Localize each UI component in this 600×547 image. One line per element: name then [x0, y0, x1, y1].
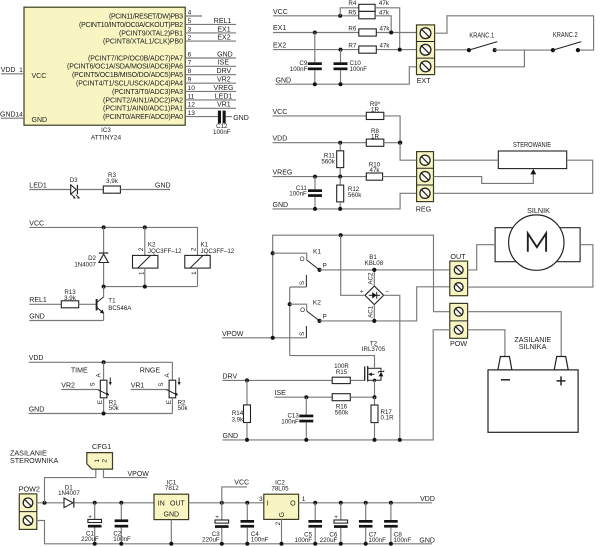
svg-text:VREG: VREG: [273, 170, 293, 177]
svg-text:220uF: 220uF: [81, 536, 99, 543]
svg-text:JQC3FF–12: JQC3FF–12: [201, 248, 235, 255]
svg-text:OUT: OUT: [450, 252, 466, 261]
junction DRV/R14: [245, 378, 249, 382]
wire switch midpoint to EXT pin3: [435, 50, 525, 67]
net REL1 wire: [29, 297, 61, 304]
relay contact K1: [273, 249, 327, 287]
ground GND bottom rail: [37, 521, 435, 545]
capacitor C6 220uF: [320, 503, 348, 544]
junction VCC/K2: [143, 225, 147, 229]
trimmer R2 50k: [158, 372, 188, 413]
resistor R16 560k: [332, 394, 350, 417]
junction AC2 / K1P wire: [372, 268, 376, 272]
junction R9/R8: [398, 141, 402, 145]
net GND (top right) wire: [276, 67, 417, 85]
capacitor C7 100nF: [359, 503, 386, 544]
pin 13 wire to C12: [185, 110, 218, 117]
svg-text:EXT: EXT: [417, 76, 432, 85]
svg-text:GND: GND: [217, 51, 233, 58]
svg-text:100nF: 100nF: [368, 537, 386, 544]
svg-text:JQC3FF–12: JQC3FF–12: [148, 248, 182, 255]
wire CFG1 pin2 to VPOW: [104, 469, 148, 478]
svg-text:P: P: [323, 314, 327, 321]
relay coil K1 JQC3FF-12: [185, 241, 235, 286]
potentiometer STEROWANIE: [498, 142, 566, 169]
junction C2: [119, 501, 123, 505]
capacitor C1 220uF: [81, 503, 101, 544]
pin 4 wire PB3: [185, 9, 202, 16]
net VCC (regulator row): [273, 109, 367, 116]
junction GND/C4: [245, 542, 249, 546]
svg-text:(PCINT0/AREF/ADC0)PA0: (PCINT0/AREF/ADC0)PA0: [103, 114, 183, 121]
wire EXT pin1 to top rail: [435, 16, 594, 50]
wire IC2 pin2 lead: [281, 519, 283, 543]
svg-text:9: 9: [188, 77, 192, 84]
wire R4 output to EX2 line: [375, 8, 400, 50]
svg-text:BC546A: BC546A: [108, 305, 132, 312]
capacitor C10 100nF: [334, 50, 368, 85]
svg-text:3: 3: [188, 26, 192, 33]
junction GND/C6: [339, 542, 343, 546]
transistor Q1 T1 BC546A: [97, 287, 133, 321]
svg-text:VCC: VCC: [273, 9, 288, 16]
svg-text:2: 2: [101, 458, 108, 462]
pin 8 wire node DRV: [185, 68, 236, 75]
svg-text:EX2: EX2: [217, 35, 230, 42]
pin 6 wire node GND: [185, 51, 236, 58]
junction top rail / bridge +: [339, 233, 343, 237]
svg-text:VDD: VDD: [1, 67, 16, 74]
pin 3 wire node EX1: [185, 26, 236, 33]
svg-text:IRL3705: IRL3705: [362, 346, 386, 353]
junction C3: [220, 501, 224, 505]
svg-text:VPOW: VPOW: [128, 471, 150, 478]
svg-text:GND: GND: [273, 202, 289, 209]
net VREG wire: [273, 170, 367, 177]
svg-text:STEROWNIKA: STEROWNIKA: [10, 456, 59, 465]
svg-text:(PCINT4/T1/SCL/USCK/ADC4)PA4: (PCINT4/T1/SCL/USCK/ADC4)PA4: [76, 81, 183, 88]
svg-text:100nF: 100nF: [350, 66, 368, 73]
wire relay return rail: [104, 286, 198, 288]
svg-text:KRANC.1: KRANC.1: [469, 33, 494, 40]
svg-text:KBL08: KBL08: [365, 260, 384, 267]
resistor R8 1R: [366, 128, 384, 146]
terminal block OUT: [450, 252, 468, 296]
svg-text:(PCINT5/OC1B/MISO/DO/ADC5)PA5: (PCINT5/OC1B/MISO/DO/ADC5)PA5: [72, 72, 183, 79]
junction EX2/R4: [398, 48, 402, 52]
junction left vertical / K1 O: [271, 251, 275, 255]
junction AC1 / K2P wire: [372, 319, 376, 323]
svg-text:REL1: REL1: [214, 18, 232, 25]
junction C6: [339, 501, 343, 505]
svg-text:REL1: REL1: [29, 297, 47, 304]
junction C8: [389, 501, 393, 505]
svg-text:OUT: OUT: [170, 500, 186, 507]
capacitor C2 100nF: [113, 503, 131, 544]
svg-text:GND: GND: [0, 111, 16, 118]
svg-text:O: O: [300, 256, 305, 263]
wire R5 output to EX1 line: [375, 16, 391, 33]
svg-text:(PCINT2/AIN1/ADC2)PA2: (PCINT2/AIN1/ADC2)PA2: [103, 97, 183, 104]
terminal block POW2: [19, 485, 40, 530]
battery ZASILANIE SILNIKA: [488, 335, 578, 433]
svg-text:0.1R: 0.1R: [381, 415, 395, 422]
resistor R17 0.1R: [371, 397, 394, 440]
IC2 78L05 regulator: [259, 479, 306, 519]
junction VREG/R11/R12: [338, 175, 342, 179]
svg-text:2: 2: [275, 521, 282, 525]
svg-text:DRV: DRV: [217, 68, 232, 75]
svg-text:(PCINT3/T0/ADC3)PA3: (PCINT3/T0/ADC3)PA3: [112, 89, 183, 96]
resistor R12 560k: [337, 177, 363, 209]
junction GND/C11: [313, 207, 317, 211]
resistor R5 47k: [348, 10, 389, 19]
LED D3: [70, 177, 80, 199]
wire bridge - to GND rail: [384, 295, 400, 440]
svg-text:SILNIKA: SILNIKA: [519, 342, 547, 351]
net VCC relay rail: [29, 220, 197, 255]
pin 10 wire node VREG: [185, 85, 236, 92]
svg-text:2: 2: [191, 247, 198, 251]
svg-text:GND: GND: [29, 313, 45, 320]
svg-text:VPOW: VPOW: [222, 331, 244, 338]
svg-text:50k: 50k: [178, 405, 189, 412]
resistor R3 3,9k: [103, 172, 120, 193]
resistor R10 47k: [366, 161, 382, 180]
svg-text:(PCINT8/XTAL1/CLK)PB0: (PCINT8/XTAL1/CLK)PB0: [103, 39, 183, 46]
svg-text:6: 6: [188, 51, 192, 58]
net EX1 wire: [273, 25, 417, 32]
junction VDD/R11: [338, 141, 342, 145]
junction GND/C7: [364, 542, 368, 546]
motor SILNIK: [495, 206, 580, 270]
svg-text:VCC: VCC: [29, 220, 44, 227]
pin 2 wire node EX2: [185, 35, 236, 42]
net LED1 wire: [29, 183, 70, 190]
net VR2 wire: [61, 383, 97, 390]
wire D3 to R3: [77, 189, 103, 191]
svg-text:GND: GND: [223, 433, 239, 440]
bridge rectifier B1 KBL08: [360, 254, 389, 318]
capacitor C9 100nF: [290, 33, 322, 85]
junction EX1/C9: [313, 31, 317, 35]
junction VCC/D2: [102, 225, 106, 229]
IC1 7812 regulator: [154, 479, 189, 519]
wire junction down to REG pin1: [400, 143, 417, 161]
svg-text:D3: D3: [70, 177, 78, 184]
net DRV wire: [223, 373, 333, 380]
wire VPOW top rail: [273, 235, 450, 338]
junction GND/C1: [93, 542, 97, 546]
svg-text:R4: R4: [348, 0, 356, 7]
ground GND trimmer rail: [29, 407, 173, 414]
resistor R11 560k: [321, 143, 343, 177]
svg-text:IC3: IC3: [101, 127, 111, 134]
pin 11 wire node LED1: [185, 93, 236, 100]
svg-text:SILNIK: SILNIK: [527, 206, 550, 215]
junction GND/C3: [220, 542, 224, 546]
svg-text:S: S: [89, 383, 96, 387]
svg-text:VDD: VDD: [273, 136, 288, 143]
wire VCC to R4: [340, 8, 359, 16]
pot wiper arrow: [530, 169, 536, 175]
junction GND/IC2: [280, 542, 284, 546]
svg-text:G: G: [279, 512, 286, 517]
resistor R7 47k: [348, 42, 390, 53]
svg-text:(PCINT10/INT0/OC0A/CKOUT)PB2: (PCINT10/INT0/OC0A/CKOUT)PB2: [79, 22, 183, 29]
svg-text:EX2: EX2: [273, 42, 286, 49]
junction GND/IC1: [169, 542, 173, 546]
svg-text:ISE: ISE: [275, 390, 287, 397]
svg-text:S: S: [299, 332, 306, 336]
net VPOW wire to K2 S: [222, 331, 306, 338]
svg-text:−: −: [385, 288, 389, 295]
svg-text:POW2: POW2: [19, 485, 40, 494]
wire bridge + to top rail: [341, 235, 365, 295]
wire R13 to T1 base: [79, 303, 96, 305]
junction VDD/R1: [102, 360, 106, 364]
svg-text:VR1: VR1: [217, 102, 231, 109]
svg-text:RNGE: RNGE: [140, 367, 161, 374]
wire T2 drain rail: [290, 356, 375, 368]
capacitor C11 100nF: [289, 177, 322, 209]
svg-text:TIME: TIME: [71, 367, 88, 374]
capacitor C13 100nF: [281, 397, 313, 440]
svg-text:560k: 560k: [321, 158, 335, 165]
svg-text:12: 12: [188, 102, 196, 109]
wire R16 to source node: [350, 396, 374, 398]
wire KRANC.1 to KRANC.2: [495, 49, 553, 51]
svg-text:1: 1: [302, 496, 306, 503]
IC U3 ATTINY24 body: [24, 7, 185, 141]
wire R10 to REG pin2: [383, 176, 417, 178]
wire POW pin1 to battery +: [468, 312, 562, 357]
net VCC stub: [222, 479, 249, 503]
net VDD (regulator row): [273, 136, 367, 143]
svg-text:VDD: VDD: [29, 355, 44, 362]
svg-text:R6: R6: [348, 25, 356, 32]
terminal block POW: [450, 303, 468, 347]
svg-text:O: O: [300, 307, 305, 314]
pin 9 wire node VR2: [185, 77, 236, 84]
node VDD pin1 wire: [1, 67, 24, 74]
junction GND/C8: [389, 542, 393, 546]
svg-text:(PCINT6/OC1A/SDA/MOSI/ADC6)PA6: (PCINT6/OC1A/SDA/MOSI/ADC6)PA6: [67, 64, 183, 71]
trimmer R1 50k: [89, 362, 119, 413]
junction rail/D2/T1: [102, 285, 106, 289]
svg-text:IN: IN: [158, 500, 165, 507]
svg-text:10: 10: [188, 85, 196, 92]
net VDD output wire: [299, 496, 435, 503]
junction C7: [364, 501, 368, 505]
resistor R6 47k: [348, 25, 390, 36]
svg-text:LED1: LED1: [29, 183, 47, 190]
svg-text:R7: R7: [348, 42, 356, 49]
svg-text:I: I: [267, 501, 269, 508]
capacitor C3 220uF: [202, 503, 228, 544]
svg-text:1: 1: [94, 458, 101, 462]
svg-text:47k: 47k: [379, 0, 390, 7]
svg-text:13: 13: [188, 110, 196, 117]
wire POW2 pin1 to D1: [37, 502, 64, 504]
junction GND/C9: [313, 82, 317, 86]
svg-text:K1: K1: [313, 249, 321, 256]
svg-text:VCC: VCC: [234, 479, 249, 486]
wire C12 to GND: [226, 116, 232, 118]
wire OUT pin2 to motor right: [468, 245, 593, 287]
svg-text:VDD: VDD: [420, 496, 435, 503]
junction GND/R17: [373, 438, 377, 442]
junction GND/R1: [102, 412, 106, 416]
junction GND/C13: [304, 438, 308, 442]
svg-text:(PCINT9/XTAL2)PB1: (PCINT9/XTAL2)PB1: [119, 30, 183, 37]
svg-text:VCC: VCC: [273, 109, 288, 116]
wire R9 output down: [384, 116, 400, 143]
svg-text:8: 8: [188, 68, 192, 75]
svg-text:78L05: 78L05: [271, 485, 289, 492]
svg-text:560k: 560k: [348, 192, 362, 199]
junction EX1/R5: [389, 31, 393, 35]
svg-text:ATTINY24: ATTINY24: [91, 135, 122, 142]
junction GND/C2: [119, 542, 123, 546]
svg-text:P: P: [323, 263, 327, 270]
svg-text:E: E: [97, 400, 104, 404]
svg-text:220uF: 220uF: [202, 537, 220, 544]
svg-text:GND: GND: [419, 537, 435, 544]
junction VREG/C11: [313, 175, 317, 179]
jumper CFG1: [87, 442, 113, 469]
svg-text:(PCINT1/AIN0/ADC1)PA1: (PCINT1/AIN0/ADC1)PA1: [103, 106, 183, 113]
svg-text:GND: GND: [32, 117, 48, 124]
capacitor C5 100nF: [295, 503, 322, 544]
junction C4: [245, 501, 249, 505]
svg-text:100nF: 100nF: [251, 537, 269, 544]
svg-text:11: 11: [188, 93, 195, 100]
net VR1 wire: [131, 383, 167, 390]
svg-text:2: 2: [188, 35, 192, 42]
svg-text:VR1: VR1: [131, 383, 145, 390]
transistor T2 IRL3705 MOSFET: [362, 340, 386, 397]
svg-text:4: 4: [188, 9, 192, 16]
svg-text:3: 3: [259, 496, 263, 503]
wire REG pin2 to pot wiper: [434, 173, 534, 184]
resistor R4 47k: [348, 0, 389, 11]
svg-text:3,9k: 3,9k: [231, 417, 244, 424]
svg-text:VR2: VR2: [61, 383, 75, 390]
wire IC1 GND lead: [170, 520, 172, 544]
svg-text:KRANC.2: KRANC.2: [553, 32, 578, 39]
svg-text:100nF: 100nF: [295, 537, 313, 544]
wire R3 to GND: [120, 189, 170, 191]
svg-text:REG: REG: [416, 204, 432, 213]
wire branch up to CFG1: [45, 469, 96, 503]
svg-text:DRV: DRV: [223, 373, 238, 380]
svg-text:LED1: LED1: [215, 93, 233, 100]
diode D2 1N4007: [74, 227, 108, 286]
capacitor C8 100nF: [384, 503, 411, 544]
junction ISE/C13: [304, 395, 308, 399]
svg-text:T1: T1: [108, 297, 116, 304]
svg-text:220uF: 220uF: [320, 537, 338, 544]
wire EXT pin2 to KRANC.1: [435, 49, 469, 51]
svg-text:1: 1: [19, 67, 23, 74]
svg-text:1: 1: [191, 271, 198, 275]
terminal block EXT: [417, 25, 435, 85]
svg-text:GND: GND: [155, 183, 171, 190]
svg-text:1N4007: 1N4007: [74, 262, 96, 269]
svg-text:(PCINT7/ICP/OC0B/ADC7)PA7: (PCINT7/ICP/OC0B/ADC7)PA7: [88, 55, 183, 62]
svg-text:EX1: EX1: [217, 26, 230, 33]
svg-text:3,9k: 3,9k: [106, 178, 119, 185]
svg-text:(PCIN11/RESET/DW)PB3: (PCIN11/RESET/DW)PB3: [109, 13, 183, 20]
svg-text:5: 5: [188, 18, 192, 25]
svg-text:K2: K2: [313, 300, 321, 307]
junction T2 source / R17: [373, 395, 377, 399]
svg-text:14: 14: [15, 111, 23, 118]
svg-text:AC1: AC1: [367, 305, 374, 318]
svg-text:CFG1: CFG1: [92, 442, 111, 451]
svg-text:E: E: [166, 400, 173, 404]
switch KRANC.2: [551, 32, 581, 52]
pin 12 wire node VR1: [185, 102, 236, 109]
junction rail/K2: [143, 285, 147, 289]
svg-text:47k: 47k: [380, 42, 391, 49]
svg-text:EX1: EX1: [273, 25, 286, 32]
net GND (regulator row) wire: [273, 193, 417, 209]
wire bridge AC2 lead: [373, 270, 375, 286]
junction K2 O: [288, 302, 292, 306]
wire R8 output to REG pin1: [384, 142, 400, 144]
junction GND/C10: [339, 82, 343, 86]
junction GND/R12: [338, 207, 342, 211]
svg-text:GND: GND: [233, 115, 249, 122]
junction VCC/R4: [338, 14, 342, 18]
svg-text:AC2: AC2: [367, 272, 374, 285]
resistor R9* 1R: [366, 101, 384, 120]
svg-text:VCC: VCC: [32, 73, 47, 80]
svg-text:100nF: 100nF: [289, 191, 307, 198]
junction POW2/CFG1 branch: [43, 501, 47, 505]
resistor R15 100R: [332, 363, 350, 383]
svg-text:1N4007: 1N4007: [58, 490, 80, 497]
relay coil K2 JQC3FF-12: [133, 227, 183, 286]
junction VPOW / left vertical: [271, 336, 275, 340]
svg-text:VR2: VR2: [217, 77, 231, 84]
pin 7 wire node ISE: [185, 60, 236, 67]
ground GND rail motor section: [223, 330, 450, 440]
junction GND/R14: [245, 438, 249, 442]
junction EX2/C10: [339, 48, 343, 52]
junction C1: [93, 501, 97, 505]
svg-text:100nF: 100nF: [290, 66, 308, 73]
relay contact K2: [290, 300, 327, 339]
wire K1-S / K2-O vertical to T2 drain: [289, 287, 291, 356]
node GND pin14 wire: [0, 111, 24, 118]
junction C5: [313, 501, 317, 505]
net VDD trimmer rail: [29, 355, 173, 380]
label ZASILANIE STEROWNIKA: [10, 448, 59, 465]
svg-text:S: S: [158, 383, 165, 387]
wire POW pin2 to battery -: [468, 330, 505, 357]
net ISE wire: [275, 390, 333, 397]
switch KRANC.1: [467, 33, 498, 53]
terminal block REG: [416, 152, 434, 214]
svg-text:7812: 7812: [165, 485, 179, 492]
capacitor C12 100nF: [213, 111, 231, 136]
net VCC (top right): [273, 9, 359, 16]
svg-text:7: 7: [188, 60, 192, 67]
wire motor left to OUT pin1: [468, 245, 496, 270]
